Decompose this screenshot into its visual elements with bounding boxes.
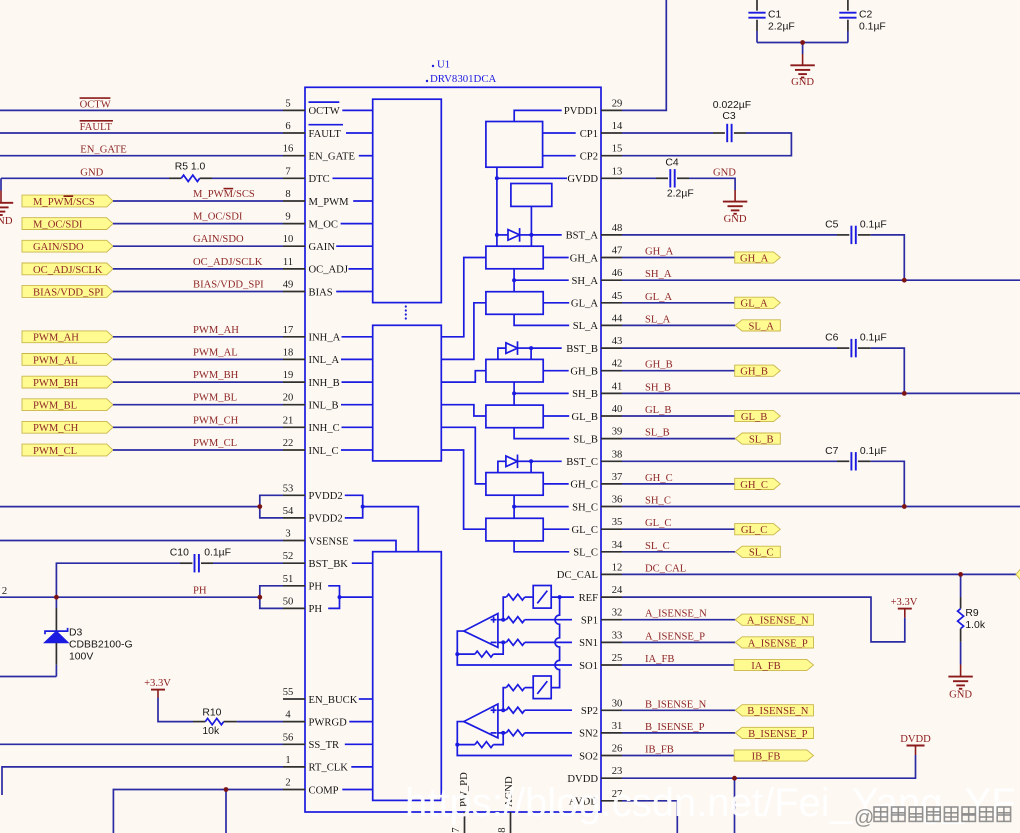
internal wire GVDD	[497, 177, 567, 179]
svg-text:C4: C4	[665, 158, 679, 169]
svg-text:BIAS: BIAS	[309, 287, 333, 298]
pin 41 SH_B	[572, 381, 622, 400]
junction GVDD internal	[495, 176, 499, 180]
internal route INL_C to GL_C	[441, 450, 486, 529]
svg-text:IA_FB: IA_FB	[751, 661, 780, 672]
svg-text:12: 12	[612, 562, 623, 573]
capacitor C4	[656, 158, 694, 200]
junction PVDD2 internal	[361, 505, 365, 509]
svg-text:SH_C: SH_C	[645, 496, 671, 507]
svg-text:10k: 10k	[202, 726, 220, 737]
wire GVDD to C4	[622, 177, 656, 179]
svg-text:56: 56	[283, 732, 294, 743]
svg-text:INL_B: INL_B	[309, 401, 339, 412]
svg-text:CP1: CP1	[580, 129, 598, 140]
port OC_ADJ/SCLK	[22, 263, 113, 275]
internal wire GL_A	[543, 302, 569, 304]
gate driver box GL_B	[486, 405, 543, 428]
port SL_B	[735, 433, 780, 444]
svg-text:SL_A: SL_A	[749, 321, 775, 332]
port PWM_CL	[22, 444, 113, 456]
svg-text:10: 10	[283, 234, 294, 245]
port DC_CAL (clipped at edge)	[1016, 570, 1020, 580]
svg-text:SH_A: SH_A	[572, 276, 599, 287]
svg-text:14: 14	[612, 121, 623, 132]
internal PVDD2 bracket	[345, 495, 363, 518]
ground symbol R9	[948, 665, 972, 701]
wire BST to C6	[622, 347, 837, 349]
svg-text:SL_C: SL_C	[749, 548, 774, 559]
svg-text:2: 2	[2, 586, 7, 597]
internal op-amp current sense 2 with cal switch	[455, 676, 572, 756]
svg-text:PWM_BL: PWM_BL	[193, 393, 237, 404]
internal wire OCTW to inner box	[342, 109, 372, 111]
power symbol +3.3V (PWRGD)	[144, 678, 171, 697]
wire GL_C to port	[622, 528, 735, 530]
gate driver box GH_B	[486, 359, 543, 382]
port PWM_BL	[22, 399, 113, 411]
svg-text:GH_C: GH_C	[645, 473, 673, 484]
svg-text:OC_ADJ: OC_ADJ	[309, 265, 348, 276]
internal wire GH_B	[543, 370, 569, 372]
svg-text:C1: C1	[768, 10, 782, 21]
power symbol DVDD	[900, 734, 931, 755]
wire CP1 to C3	[622, 132, 713, 134]
port GL_C	[735, 524, 781, 535]
svg-text:@: @	[854, 807, 874, 829]
pin 43 BST_B	[566, 336, 622, 355]
pin 30 SP2	[581, 698, 622, 717]
internal diode BST_C bypass	[498, 461, 506, 472]
svg-text:0.1µF: 0.1µF	[860, 219, 887, 230]
internal wire SH_A	[514, 279, 569, 281]
svg-text:32: 32	[612, 608, 623, 619]
svg-text:FAULT: FAULT	[309, 129, 342, 140]
pin 33 SN1	[579, 630, 622, 649]
internal wire COMP to inner box	[342, 789, 372, 791]
wire C1-C2 ground bus	[757, 42, 848, 44]
svg-text:SS_TR: SS_TR	[309, 740, 341, 751]
svg-text:PWM_CL: PWM_CL	[193, 438, 237, 449]
svg-text:GH_A: GH_A	[740, 253, 769, 264]
junction DC_CAL at R9	[958, 572, 963, 577]
svg-text:PWM_AH: PWM_AH	[193, 325, 239, 336]
svg-text:M_OC/SDI: M_OC/SDI	[33, 220, 83, 231]
internal wire PVDD2 bracket to box3 top	[363, 507, 419, 552]
internal wire BIAS to inner box	[336, 291, 373, 293]
svg-text:PH: PH	[193, 586, 207, 597]
svg-text:GAIN: GAIN	[309, 242, 336, 253]
pin 57 PWRPD (bottom)	[451, 772, 470, 833]
svg-text:SL_A: SL_A	[645, 314, 671, 325]
svg-text:BST_A: BST_A	[566, 231, 599, 242]
internal wire BST_BK to box3	[352, 562, 373, 564]
svg-text:+3.3V: +3.3V	[891, 597, 918, 608]
wire PVDD2 bracket	[260, 495, 283, 518]
svg-text:0.1µF: 0.1µF	[859, 21, 886, 32]
svg-text:SP1: SP1	[581, 616, 598, 627]
svg-text:C3: C3	[722, 111, 736, 122]
pin 47 GH_A	[570, 246, 623, 265]
pin 38 BST_C	[566, 449, 622, 468]
wire A_ISENSE_P	[622, 641, 735, 643]
port GH_C	[735, 478, 781, 489]
pin 22 INL_C	[283, 438, 339, 457]
junction C1/C2 ground	[800, 40, 805, 45]
svg-text:PH: PH	[309, 582, 323, 593]
wire SH to right edge	[622, 279, 1020, 281]
svg-text:34: 34	[612, 540, 623, 551]
pin 55 EN_BUCK	[283, 687, 358, 706]
junction SH_A at C5	[902, 278, 907, 283]
svg-text:7: 7	[285, 166, 290, 177]
svg-text:REF: REF	[579, 593, 599, 604]
svg-text:PWM_AH: PWM_AH	[33, 333, 79, 344]
internal route INH_A to GH_A	[441, 258, 486, 337]
wire SH to right edge	[622, 506, 1020, 508]
svg-text:50: 50	[283, 596, 294, 607]
wire COMP	[113, 790, 283, 833]
wire C7 down to SH	[871, 461, 905, 506]
pin 9 M_OC	[283, 212, 338, 231]
svg-text:2.2µF: 2.2µF	[667, 188, 694, 199]
internal wire GL_B	[543, 415, 569, 417]
internal wire DTC to inner box	[333, 177, 373, 179]
svg-text:11: 11	[283, 257, 293, 268]
internal vertical GH_C to GL_C with SH tap	[513, 495, 515, 518]
svg-text:GL_A: GL_A	[645, 292, 672, 303]
svg-text:C5: C5	[825, 219, 839, 230]
svg-text:PVDD2: PVDD2	[309, 491, 343, 502]
pin 8 M_PWM	[283, 189, 349, 208]
junction BST_A left	[495, 233, 499, 237]
wire B_ISENSE_P	[622, 732, 735, 734]
pin 10 GAIN	[283, 234, 336, 253]
svg-text:GH_B: GH_B	[570, 367, 598, 378]
svg-text:OC_ADJ/SCLK: OC_ADJ/SCLK	[193, 257, 263, 268]
junction BST_A right	[529, 233, 533, 237]
wire FAULT	[0, 132, 283, 134]
internal wire M_OC to inner box	[341, 223, 373, 225]
capacitor C2	[839, 0, 885, 43]
svg-text:https://blog.csdn.net/Fei_Yang: https://blog.csdn.net/Fei_Yang_YF	[405, 781, 1016, 825]
wire BST to C5	[622, 234, 837, 236]
svg-text:INH_C: INH_C	[309, 423, 340, 434]
internal wire INL_C to inner box	[341, 449, 373, 451]
pin 18 INL_A	[283, 347, 340, 366]
svg-text:OCTW: OCTW	[309, 106, 340, 117]
pin 26 SO2	[579, 744, 622, 763]
pin 15 CP2	[580, 144, 623, 163]
svg-text:DVDD: DVDD	[900, 734, 931, 745]
pin 29 PVDD1	[564, 98, 622, 117]
internal wire M_PWM to inner box	[353, 200, 373, 202]
wire GL_A to port	[622, 302, 735, 304]
svg-text:36: 36	[612, 495, 623, 506]
gate driver box GL_A	[486, 292, 543, 315]
inner buck controller box 3	[373, 552, 442, 801]
svg-text:INH_A: INH_A	[309, 333, 341, 344]
svg-text:GL_C: GL_C	[741, 525, 767, 536]
internal vertical charge pump to GVDD/BST_A	[496, 167, 498, 246]
svg-text:35: 35	[612, 517, 623, 528]
svg-text:INH_B: INH_B	[309, 378, 340, 389]
svg-text:OC_ADJ/SCLK: OC_ADJ/SCLK	[33, 265, 103, 276]
svg-text:M_OC: M_OC	[309, 219, 338, 230]
wire SS_TR	[0, 743, 283, 745]
wire A_ISENSE_N	[622, 619, 735, 621]
junction PH internal	[338, 595, 342, 599]
wire PWM_CH	[113, 426, 283, 428]
internal wire EN_GATE to inner box	[359, 155, 373, 157]
svg-text:0.1µF: 0.1µF	[860, 333, 887, 344]
op-amp U1 DRV8301DCA body outline	[305, 87, 601, 812]
svg-text:2: 2	[285, 778, 290, 789]
svg-text:CDBB2100-G: CDBB2100-G	[69, 639, 133, 650]
internal REF bus with wire hops	[551, 597, 559, 688]
svg-text:C7: C7	[825, 446, 839, 457]
svg-text:COMP: COMP	[309, 785, 339, 796]
svg-text:GL_B: GL_B	[741, 412, 767, 423]
charge pump box	[486, 122, 543, 168]
internal wire SH_B	[514, 392, 569, 394]
resistor R10	[193, 707, 283, 737]
svg-text:0.1µF: 0.1µF	[860, 446, 887, 457]
svg-text:A_ISENSE_N: A_ISENSE_N	[645, 609, 707, 620]
internal wire CP2	[543, 155, 576, 157]
svg-text:EN_BUCK: EN_BUCK	[309, 695, 358, 706]
pin 46 SH_A	[572, 268, 623, 287]
wire RT_CLK	[2, 767, 283, 795]
wire SL_A to port	[622, 324, 735, 326]
svg-text:SO1: SO1	[579, 661, 598, 672]
pin 36 SH_C	[572, 495, 622, 514]
svg-text:23: 23	[612, 766, 623, 777]
internal wire BST_C to pin	[531, 460, 562, 462]
junction SH_A internal	[512, 278, 516, 282]
port BIAS/VDD_SPI	[22, 286, 113, 298]
svg-text:B_ISENSE_P: B_ISENSE_P	[645, 722, 705, 733]
pin 16 EN_GATE	[283, 144, 355, 163]
pin 51 PH	[283, 574, 323, 593]
svg-text:EN_GATE: EN_GATE	[309, 152, 356, 163]
pin 35 GL_C	[572, 517, 623, 536]
svg-text:SH_A: SH_A	[645, 269, 672, 280]
pin 14 CP1	[580, 121, 623, 140]
svg-text:SN2: SN2	[579, 729, 598, 740]
svg-text:37: 37	[612, 472, 623, 483]
inner control logic box 2	[373, 325, 442, 461]
svg-text:22: 22	[283, 438, 294, 449]
internal wire INH_B to inner box	[342, 381, 373, 383]
gate driver box GH_A	[486, 246, 543, 269]
svg-text:42: 42	[612, 359, 623, 370]
svg-text:4: 4	[285, 710, 291, 721]
pin 42 GH_B	[570, 359, 622, 378]
svg-text:GND: GND	[791, 77, 814, 88]
diode D3 CDBB2100-G	[44, 597, 132, 676]
wire BST to C7	[622, 460, 837, 462]
svg-text:DC_CAL: DC_CAL	[557, 570, 598, 581]
junction BST_C	[529, 459, 533, 463]
svg-text:PWM_AL: PWM_AL	[33, 355, 78, 366]
svg-text:38: 38	[612, 449, 623, 460]
wire M_PWM/SCS	[113, 200, 283, 202]
wire GH_C to port	[622, 483, 735, 485]
svg-text:28: 28	[497, 827, 508, 833]
svg-text:29: 29	[612, 98, 623, 109]
internal wire INH_A to inner box	[342, 336, 373, 338]
svg-text:GND: GND	[80, 167, 103, 178]
pin 54 PVDD2	[283, 506, 343, 525]
junction BST_B	[529, 346, 533, 350]
wire PWM_CL	[113, 449, 283, 451]
port IB_FB	[734, 750, 813, 761]
svg-text:SL_B: SL_B	[749, 435, 774, 446]
pin 50 PH	[283, 596, 323, 615]
wire DVDD	[622, 755, 916, 778]
svg-text:R5 1.0: R5 1.0	[175, 161, 206, 172]
svg-text:21: 21	[283, 415, 294, 426]
svg-text:GL_B: GL_B	[645, 405, 671, 416]
wire GND net down to ground symbol	[0, 178, 2, 190]
svg-text:BST_C: BST_C	[566, 457, 598, 468]
svg-text:PWM_AL: PWM_AL	[193, 347, 238, 358]
svg-text:45: 45	[612, 291, 623, 302]
svg-text:U1: U1	[437, 59, 450, 71]
svg-text:B_ISENSE_N: B_ISENSE_N	[747, 706, 809, 717]
svg-text:GL_A: GL_A	[741, 299, 768, 310]
junction PH at D3	[54, 595, 59, 600]
svg-text:43: 43	[612, 336, 623, 347]
port GL_B	[735, 410, 781, 421]
pin 53 PVDD2	[283, 483, 343, 502]
pin 34 SL_C	[573, 540, 623, 559]
svg-text:PWM_CL: PWM_CL	[33, 446, 77, 457]
svg-text:DC_CAL: DC_CAL	[645, 563, 686, 574]
svg-text:31: 31	[612, 721, 623, 732]
pin 44 SL_A	[573, 313, 623, 332]
ellipsis dots between box1 and box2	[405, 305, 407, 307]
wire SH to right edge	[622, 392, 1020, 394]
svg-text:54: 54	[283, 506, 294, 517]
wire OCTW	[0, 109, 283, 111]
pin 32 SP1	[581, 608, 622, 627]
svg-text:B_ISENSE_N: B_ISENSE_N	[645, 699, 707, 710]
svg-text:BST_B: BST_B	[566, 344, 598, 355]
wire C4 to ground corner	[689, 178, 735, 190]
internal diode BST_B bypass	[498, 348, 506, 359]
resistor R5	[169, 161, 283, 181]
svg-text:EN_GATE: EN_GATE	[80, 145, 127, 156]
internal wire RT_CLK to inner box	[351, 766, 372, 768]
port A_ISENSE_P	[735, 637, 813, 648]
svg-text:SL_C: SL_C	[573, 548, 598, 559]
svg-text:GL_B: GL_B	[572, 412, 598, 423]
pin 49 BIAS	[283, 280, 333, 299]
wire VSENSE	[0, 540, 283, 542]
pin 11 OC_ADJ	[283, 257, 348, 276]
capacitor C1	[748, 0, 794, 43]
resistor R9	[958, 574, 986, 664]
internal vertical GH_A box to GL_A box with SH_A tap	[513, 269, 515, 292]
svg-text:PWM_BH: PWM_BH	[193, 370, 239, 381]
svg-text:B_ISENSE_P: B_ISENSE_P	[748, 729, 808, 740]
svg-text:33: 33	[612, 630, 623, 641]
wire DVDD branch down	[734, 778, 736, 833]
ground symbol top (C1/C2)	[790, 43, 814, 88]
wire PWM_BH	[113, 381, 283, 383]
port PWM_BH	[22, 376, 113, 388]
wire GH_B to port	[622, 370, 735, 372]
svg-text:SL_A: SL_A	[573, 321, 599, 332]
svg-text:57: 57	[451, 827, 462, 833]
svg-text:1.0k: 1.0k	[965, 620, 985, 631]
internal route INH_B to GH_B	[441, 371, 486, 382]
pin 40 GL_B	[572, 404, 623, 423]
svg-text:17: 17	[283, 325, 294, 336]
svg-text:BST_BK: BST_BK	[309, 559, 349, 570]
svg-text:C6: C6	[825, 333, 839, 344]
svg-text:1: 1	[285, 755, 290, 766]
port GL_A	[735, 297, 781, 308]
internal wire GH_C	[543, 483, 569, 485]
svg-text:M_OC/SDI: M_OC/SDI	[193, 212, 243, 223]
internal vertical GH_B to GL_B with SH tap	[513, 382, 515, 405]
pin 20 INL_B	[283, 393, 339, 412]
svg-text:IA_FB: IA_FB	[645, 654, 674, 665]
wire C5 down to SH	[871, 235, 905, 280]
svg-text:41: 41	[612, 381, 623, 392]
wire PWM_AH	[113, 336, 283, 338]
internal wire PVDD1 to charge pump	[514, 110, 562, 121]
junction PVDD2	[257, 504, 262, 509]
svg-text:46: 46	[612, 268, 623, 279]
svg-text:SN1: SN1	[579, 638, 598, 649]
svg-text:A_ISENSE_P: A_ISENSE_P	[748, 638, 808, 649]
svg-text:C2: C2	[859, 10, 873, 21]
internal diode BST_A	[497, 234, 508, 236]
wire PWM_BL	[113, 404, 283, 406]
svg-text:39: 39	[612, 427, 623, 438]
junction SH_B internal	[512, 391, 516, 395]
svg-text:PWM_CH: PWM_CH	[193, 415, 239, 426]
internal wire GL_C	[543, 528, 569, 530]
gate driver box GL_C	[486, 518, 543, 541]
capacitor C7	[825, 446, 887, 471]
svg-text:48: 48	[612, 223, 623, 234]
svg-text:0.1µF: 0.1µF	[204, 548, 231, 559]
wire PH bracket	[260, 586, 283, 609]
internal route INL_A to GL_A	[441, 303, 486, 360]
wire COMP branch down	[225, 790, 227, 833]
svg-text:25: 25	[612, 653, 623, 664]
svg-text:52: 52	[283, 551, 294, 562]
capacitor C5	[825, 219, 887, 244]
internal wire SS_TR to inner box	[345, 743, 373, 745]
pin 12 DC_CAL	[557, 562, 623, 581]
junction DVDD branch	[732, 776, 737, 781]
wire BIAS/VDD_SPI	[113, 291, 283, 293]
port GH_B	[735, 365, 781, 376]
svg-text:6: 6	[285, 121, 290, 132]
wire D3 anode to left edge	[0, 676, 56, 678]
port GAIN/SDO	[22, 240, 113, 252]
svg-text:A_ISENSE_N: A_ISENSE_N	[747, 616, 809, 627]
svg-text:+3.3V: +3.3V	[144, 678, 171, 689]
wire PVDD1 to top supply	[622, 0, 666, 110]
svg-text:R10: R10	[202, 707, 221, 718]
